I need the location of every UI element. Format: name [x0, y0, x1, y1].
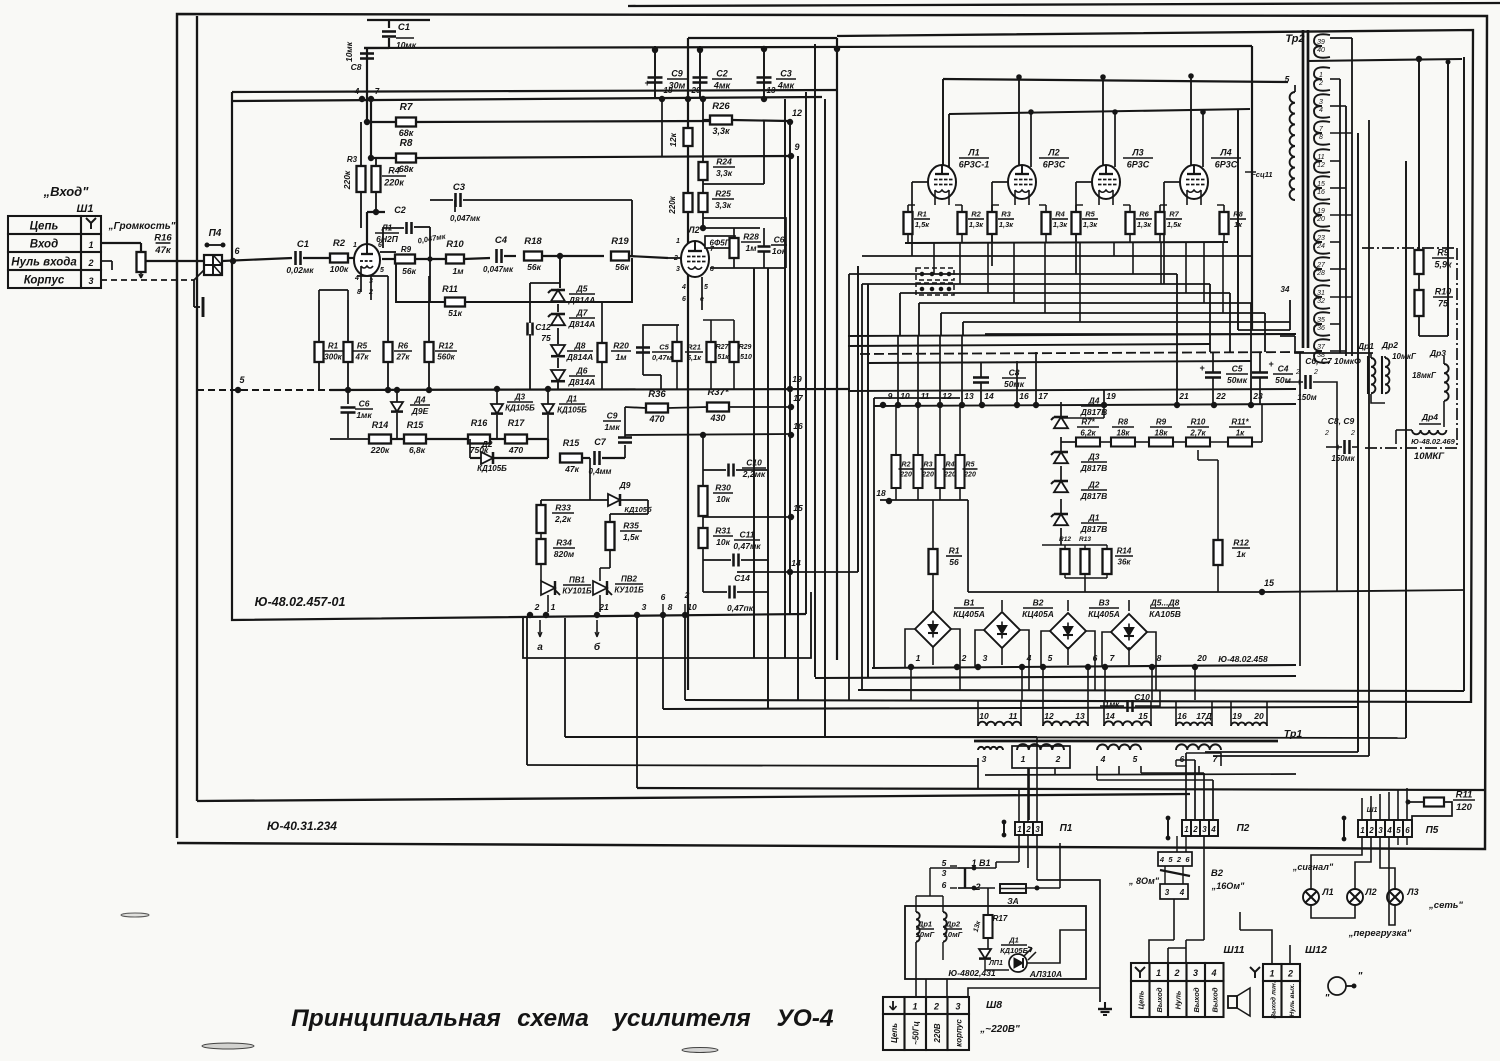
svg-text:В2: В2 [1211, 868, 1224, 879]
svg-text:С10: С10 [746, 458, 762, 468]
resistor R9 56к [395, 255, 415, 264]
svg-text:56к: 56к [527, 262, 541, 272]
svg-text:1,5к: 1,5к [623, 532, 640, 542]
node 15 line [1259, 589, 1264, 594]
R13 R14 cluster [1061, 549, 1070, 574]
svg-text:Д4: Д4 [1088, 396, 1100, 406]
resistor R28 1м [730, 238, 739, 258]
Ш11 wires [1149, 940, 1174, 963]
svg-text:С2: С2 [716, 69, 728, 79]
svg-text:220: 220 [899, 472, 912, 479]
svg-text:3: 3 [1035, 825, 1040, 834]
svg-text:R10: R10 [446, 239, 464, 250]
svg-text:Ш1: Ш1 [1367, 807, 1378, 814]
svg-text:40: 40 [1317, 47, 1325, 54]
cap С9 1мк [624, 445, 626, 458]
svg-text:R37*: R37* [707, 387, 729, 398]
cathode resistors R1-R8 [904, 212, 913, 234]
svg-text:18: 18 [664, 86, 673, 95]
svg-text:Д6: Д6 [576, 366, 588, 376]
svg-text:1: 1 [1017, 825, 1022, 834]
stage1 verticals [318, 290, 320, 300]
svg-text:R10: R10 [1435, 287, 1452, 297]
svg-text:ПВ2: ПВ2 [621, 575, 638, 584]
dashed connector a b [916, 268, 954, 280]
top feedback line [628, 3, 1500, 6]
R2-R5 220 [892, 455, 901, 488]
svg-text:220В: 220В [933, 1023, 942, 1043]
diode Д2 КД105 [469, 439, 471, 458]
resistor R27 [707, 342, 716, 362]
svg-text:R31: R31 [715, 526, 731, 536]
svg-text:15: 15 [1317, 181, 1325, 188]
svg-text:1к: 1к [1234, 220, 1243, 229]
svg-text:8: 8 [1319, 134, 1323, 141]
svg-text:Д7: Д7 [576, 308, 589, 318]
svg-text:+: + [1268, 359, 1274, 369]
svg-text:КД105Б: КД105Б [477, 464, 507, 473]
svg-text:Д817В: Д817В [1080, 524, 1107, 534]
bottom bus 788 [637, 788, 1484, 790]
svg-text:С1: С1 [398, 22, 410, 33]
svg-text:16: 16 [1177, 711, 1187, 721]
svg-text:12: 12 [1317, 162, 1325, 169]
svg-text:Л2: Л2 [1047, 148, 1059, 158]
svg-text:3: 3 [942, 868, 947, 878]
cap С6 1мк [347, 390, 349, 404]
bridge node labels [908, 664, 913, 669]
svg-text:R13: R13 [1079, 536, 1091, 543]
svg-text:3: 3 [1202, 825, 1207, 834]
tube zone drops [933, 243, 935, 274]
svg-text:1,5к: 1,5к [1167, 220, 1182, 229]
svg-text:Др1: Др1 [1357, 341, 1374, 351]
svg-text:10мк: 10мк [344, 41, 354, 62]
svg-text:П1: П1 [1060, 823, 1073, 834]
svg-text:15: 15 [1264, 578, 1275, 588]
svg-text:Л2: Л2 [687, 225, 699, 235]
svg-text:Выход: Выход [1211, 987, 1220, 1012]
svg-text:22: 22 [1215, 391, 1226, 401]
svg-text:R3: R3 [347, 155, 358, 164]
svg-text:19: 19 [1317, 208, 1325, 215]
svg-text:2: 2 [1287, 969, 1293, 979]
outer frame [177, 14, 1487, 849]
svg-text:R19: R19 [611, 236, 629, 247]
diode Д1 КД105 [542, 404, 554, 414]
svg-text:R15: R15 [407, 420, 425, 430]
svg-text:+: + [644, 78, 650, 88]
svg-text:R21: R21 [687, 343, 701, 352]
svg-text:35: 35 [1317, 317, 1325, 324]
svg-text:Д5...Д8: Д5...Д8 [1150, 598, 1180, 608]
svg-text:1: 1 [1021, 754, 1026, 764]
R36 470 [646, 404, 668, 413]
svg-text:С9: С9 [607, 411, 618, 421]
svg-text:ЛП1: ЛП1 [988, 960, 1003, 967]
svg-text:R4: R4 [1055, 210, 1065, 219]
svg-text:1: 1 [916, 653, 921, 663]
vertical 1238 [1237, 110, 1239, 330]
svg-text:3,3к: 3,3к [712, 126, 730, 136]
svg-text:Ю-40.31.234: Ю-40.31.234 [267, 819, 337, 833]
П1 wires [1018, 790, 1020, 822]
svg-text:6: 6 [1185, 855, 1190, 864]
svg-text:68к: 68к [399, 164, 414, 174]
diode Д1 psu [979, 949, 991, 959]
svg-text:75: 75 [541, 333, 551, 343]
svg-text:Нуль: Нуль [1174, 990, 1183, 1009]
svg-text:220к: 220к [383, 178, 404, 188]
node 6 [230, 258, 235, 263]
svg-text:47к: 47к [355, 353, 370, 362]
B+ vertical [1251, 46, 1253, 330]
svg-text:18к: 18к [1117, 429, 1131, 438]
svg-text:6: 6 [234, 246, 240, 256]
svg-text:4: 4 [681, 284, 686, 291]
svg-text:56к: 56к [402, 266, 416, 276]
svg-text:18мкГ: 18мкГ [1412, 371, 1437, 380]
svg-text:Д2: Д2 [1088, 480, 1100, 490]
svg-text:R29: R29 [739, 344, 752, 351]
svg-text:5,9к: 5,9к [1434, 260, 1452, 270]
svg-text:С4: С4 [495, 235, 508, 246]
svg-text:2: 2 [1368, 826, 1374, 835]
П5 connector [1358, 820, 1367, 837]
svg-text:Л1: Л1 [967, 148, 979, 158]
svg-text:„16Ом": „16Ом" [1211, 881, 1245, 891]
inner frame bottom [197, 794, 1190, 801]
svg-text:37: 37 [1317, 344, 1326, 351]
svg-text:36: 36 [1317, 325, 1325, 332]
svg-text:R4: R4 [946, 462, 955, 469]
Tp2 primary link [1238, 329, 1290, 331]
svg-text:Л2: Л2 [1364, 887, 1376, 897]
Ш11 connector [1131, 963, 1150, 981]
svg-text:Выход: Выход [1192, 987, 1201, 1012]
svg-text:R2: R2 [902, 462, 911, 469]
svg-text:Д3: Д3 [1088, 452, 1100, 462]
svg-text:В3: В3 [1099, 598, 1110, 608]
cap C8 10мк [366, 48, 368, 99]
svg-text:R16: R16 [471, 418, 489, 428]
C8 50мк [973, 376, 989, 379]
svg-text:П4: П4 [209, 228, 222, 239]
svg-text:„сигнал": „сигнал" [1292, 862, 1334, 872]
svg-text:220к: 220к [370, 445, 390, 455]
resistor R20 1м [598, 343, 607, 362]
svg-text:10к: 10к [716, 494, 730, 504]
svg-text:2: 2 [1173, 968, 1179, 978]
svg-text:1мк: 1мк [356, 410, 372, 420]
resistor R12 560к [425, 342, 434, 362]
svg-text:3: 3 [1165, 888, 1170, 897]
Tp1 core [974, 740, 1278, 743]
svg-text:7: 7 [1110, 653, 1116, 663]
svg-text:3: 3 [955, 1002, 960, 1012]
П1 connector [1015, 822, 1024, 835]
svg-text:6: 6 [1405, 826, 1410, 835]
svg-text:24: 24 [1316, 243, 1325, 250]
tube Л1 6Н2П [354, 244, 380, 276]
node 9 [788, 153, 793, 158]
zener Д7 [551, 314, 565, 325]
svg-text:300к: 300к [324, 353, 342, 362]
diode Д9 [608, 494, 620, 506]
svg-text:17: 17 [1038, 391, 1049, 401]
tube Л1 wiring [366, 212, 368, 244]
svg-text:R36: R36 [648, 389, 666, 400]
cap C5 0,47мк with box [643, 325, 679, 375]
svg-text:51к: 51к [717, 354, 729, 361]
svg-text:ЗА: ЗА [1007, 896, 1019, 906]
svg-text:С8: С8 [351, 62, 362, 72]
svg-text:2: 2 [1176, 855, 1182, 864]
dash-dot board edge [1362, 247, 1457, 249]
psu top lines [848, 334, 1296, 336]
svg-text:R18: R18 [524, 236, 542, 247]
svg-text:51к: 51к [448, 308, 462, 318]
resistor R33 2,2к [537, 505, 546, 533]
svg-text:R25: R25 [715, 189, 731, 199]
svg-text:Л3: Л3 [1131, 148, 1143, 158]
svg-text:КЦ405А: КЦ405А [1088, 609, 1120, 619]
svg-text:4: 4 [1386, 826, 1392, 835]
R31 10к [699, 528, 708, 548]
R12 1к [1214, 540, 1223, 565]
svg-text:„перегрузка": „перегрузка" [1348, 928, 1412, 939]
svg-text:1к: 1к [1236, 549, 1246, 559]
svg-text:2,7к: 2,7к [1189, 429, 1206, 438]
svg-text:0,47пк: 0,47пк [727, 603, 754, 613]
resistor R21 5,1к [673, 342, 682, 361]
cap С7 0.4мк [593, 451, 596, 465]
reg resistor row [1076, 438, 1100, 447]
splitter frame verticals [688, 37, 837, 39]
Tp2 primary winding [1290, 92, 1295, 200]
svg-text:„ 8Ом": „ 8Ом" [1128, 876, 1160, 886]
svg-text:Д1: Д1 [566, 395, 578, 404]
bridges [915, 611, 951, 647]
svg-text:R16: R16 [154, 233, 172, 244]
node 14 [787, 569, 792, 574]
svg-text:С10: С10 [1134, 692, 1150, 702]
svg-text:R8: R8 [1233, 210, 1243, 219]
svg-text:П5: П5 [1426, 825, 1439, 836]
svg-text:36к: 36к [1118, 558, 1132, 567]
svg-text:1к: 1к [1236, 429, 1245, 438]
svg-text:17Д: 17Д [1196, 711, 1212, 721]
svg-text:R3: R3 [924, 462, 933, 469]
svg-text:Корпус: Корпус [24, 275, 65, 287]
svg-text:6,8к: 6,8к [409, 445, 426, 455]
svg-text:15: 15 [793, 503, 803, 513]
svg-text:6Р3С: 6Р3С [1215, 160, 1238, 170]
svg-text:Д3: Д3 [514, 393, 526, 402]
svg-text:R7: R7 [400, 102, 413, 113]
resistor R15 47к [560, 454, 582, 463]
svg-text:0,047мк: 0,047мк [417, 231, 447, 245]
svg-text:34: 34 [1281, 285, 1290, 294]
svg-text:схема: схема [517, 1005, 589, 1032]
resistor R4 220к [372, 166, 381, 192]
svg-text:220: 220 [921, 472, 934, 479]
svg-text:Цепь: Цепь [1137, 990, 1146, 1009]
svg-text:КУ101Б: КУ101Б [614, 586, 644, 595]
svg-text:КЦ405А: КЦ405А [1022, 609, 1054, 619]
svg-text:470: 470 [648, 414, 664, 424]
R37 430 [707, 403, 729, 412]
svg-text:Выход лин.: Выход лин. [1270, 981, 1278, 1018]
svg-text:2: 2 [87, 258, 93, 268]
svg-text:R20: R20 [613, 341, 629, 351]
svg-text:4: 4 [1210, 825, 1216, 834]
svg-text:R12: R12 [1059, 536, 1071, 543]
svg-text:4: 4 [1100, 754, 1106, 764]
svg-text:R9: R9 [1156, 418, 1167, 427]
Ш12 connector [1263, 964, 1282, 981]
smudges [202, 1043, 254, 1049]
cap C2 0.047 [367, 211, 385, 213]
svg-text:47к: 47к [564, 464, 579, 474]
resistor R3 220к [357, 166, 366, 192]
diode Д8 [551, 345, 565, 356]
svg-text:Ш8: Ш8 [986, 999, 1002, 1011]
svg-text:П2: П2 [1237, 823, 1250, 834]
svg-text:R7*: R7* [1081, 418, 1095, 427]
svg-text:R14: R14 [372, 420, 389, 430]
svg-text:R17: R17 [508, 418, 526, 428]
svg-text:усилителя: усилителя [611, 1005, 750, 1032]
splitter cathode drops [687, 276, 689, 300]
svg-text:9: 9 [888, 391, 893, 401]
svg-text:С1: С1 [297, 239, 309, 250]
resistor R6 27к [384, 342, 393, 362]
resistor R5 47к [344, 342, 353, 362]
svg-text:5: 5 [1285, 74, 1290, 84]
diode chain feed [559, 256, 561, 288]
svg-text:Др2: Др2 [1381, 340, 1398, 350]
tube Л2 6Ф5П [681, 241, 709, 277]
svg-text:Д8: Д8 [574, 341, 586, 351]
svg-text:13: 13 [964, 391, 974, 401]
svg-text:R24: R24 [716, 157, 732, 167]
svg-text:КД105Б: КД105Б [505, 404, 535, 413]
right bus verticals [1357, 133, 1359, 752]
R9 5,9к [1415, 250, 1424, 274]
svg-text:R14: R14 [1117, 547, 1132, 556]
resistor R25 3,3к [699, 193, 708, 212]
svg-text:R8: R8 [400, 138, 413, 149]
svg-text:R3: R3 [1001, 210, 1011, 219]
svg-text:Цепь: Цепь [890, 1023, 899, 1043]
svg-text:17: 17 [793, 393, 804, 403]
svg-text:АЛ310А: АЛ310А [1029, 969, 1062, 979]
svg-text:R28: R28 [743, 232, 759, 242]
svg-text:11: 11 [1317, 154, 1324, 161]
svg-text:С5: С5 [659, 343, 669, 352]
resistor 12к vertical [684, 128, 693, 146]
connector Ш1 table [8, 216, 81, 234]
svg-text:~50Гц: ~50Гц [912, 1021, 921, 1045]
svg-text:5,1к: 5,1к [687, 353, 702, 362]
svg-text:3: 3 [982, 754, 987, 764]
svg-text:5: 5 [1396, 826, 1401, 835]
svg-text:120: 120 [1456, 802, 1473, 813]
svg-text:Д817В: Д817В [1080, 491, 1107, 501]
П2 risers [1185, 753, 1187, 820]
svg-text:1: 1 [912, 1002, 917, 1012]
svg-text:12: 12 [942, 391, 952, 401]
svg-text:5: 5 [1168, 855, 1173, 864]
svg-text:КА105В: КА105В [1149, 609, 1181, 619]
svg-text:Нуль входа: Нуль входа [11, 257, 77, 269]
svg-text:КД105Б: КД105Б [557, 406, 587, 415]
svg-text:27: 27 [1316, 262, 1326, 269]
svg-text:8: 8 [1157, 653, 1162, 663]
svg-text:КУ101Б: КУ101Б [562, 587, 592, 596]
svg-text:4мк: 4мк [777, 81, 795, 91]
svg-text:С3: С3 [453, 182, 466, 193]
svg-text:": " [1325, 993, 1330, 1004]
svg-text:220к: 220к [668, 195, 677, 214]
svg-text:100к: 100к [330, 264, 349, 274]
resistor R1 300к [315, 342, 324, 362]
C14 0,47мк [703, 591, 727, 593]
svg-text:3: 3 [642, 602, 647, 612]
svg-text:4: 4 [1179, 888, 1185, 897]
svg-text:С8: С8 [1009, 368, 1020, 378]
svg-text:С5: С5 [1232, 364, 1243, 374]
svg-text:6Р3С: 6Р3С [1127, 160, 1150, 170]
svg-text:3: 3 [88, 276, 93, 286]
svg-text:6Р3С-1: 6Р3С-1 [959, 160, 990, 170]
node 18 [886, 498, 891, 503]
svg-text:430: 430 [709, 413, 725, 423]
R11 120 [1424, 798, 1444, 807]
svg-text:R11*: R11* [1231, 418, 1249, 427]
svg-text:Ю-48.02.457-01: Ю-48.02.457-01 [255, 595, 346, 609]
svg-text:Ш12: Ш12 [1305, 944, 1327, 956]
svg-text:1: 1 [676, 238, 680, 245]
svg-text:18к: 18к [1155, 429, 1169, 438]
riser 868 [867, 284, 869, 678]
svg-text:Д817В: Д817В [1080, 407, 1107, 417]
svg-text:6: 6 [661, 592, 666, 602]
svg-text:R12: R12 [1233, 538, 1249, 548]
cap C3 0.047 [430, 199, 453, 201]
svg-text:1: 1 [88, 240, 93, 250]
svg-text:18: 18 [876, 488, 886, 498]
svg-text:11: 11 [921, 391, 930, 401]
svg-text:Д5: Д5 [576, 284, 588, 294]
svg-text:1,5к: 1,5к [915, 220, 930, 229]
svg-text:R27: R27 [716, 344, 730, 351]
svg-text:+: + [1199, 363, 1205, 373]
indicator box [905, 906, 1086, 979]
a b box [523, 592, 811, 658]
cap С12 75 [530, 282, 560, 284]
svg-text:0,047мк: 0,047мк [450, 214, 481, 223]
zener Д5 [551, 290, 565, 301]
svg-text:Д814А: Д814А [568, 295, 595, 305]
node 12 [787, 119, 792, 124]
svg-text:Д9: Д9 [619, 480, 631, 490]
svg-text:12: 12 [792, 108, 802, 118]
speaker icon [1228, 996, 1237, 1008]
П5 wires up [1361, 798, 1363, 820]
svg-text:4: 4 [1159, 855, 1165, 864]
